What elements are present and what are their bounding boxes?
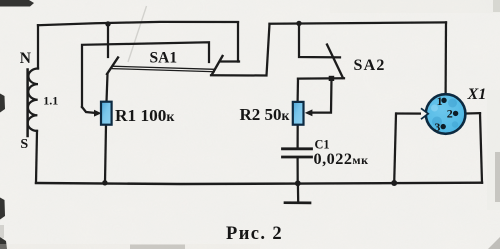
svg-text:N: N [20, 50, 31, 67]
svg-text:R1 100к: R1 100к [115, 106, 175, 125]
svg-text:1.1: 1.1 [43, 94, 58, 108]
svg-text:Рис. 2: Рис. 2 [226, 224, 283, 244]
svg-text:S: S [20, 137, 28, 152]
svg-text:1: 1 [437, 94, 443, 108]
svg-text:SA1: SA1 [150, 50, 178, 67]
svg-text:SA2: SA2 [354, 57, 386, 74]
svg-text:R2 50к: R2 50к [240, 105, 290, 124]
svg-text:3: 3 [434, 120, 440, 134]
svg-text:0,022мк: 0,022мк [314, 150, 369, 168]
svg-text:2: 2 [447, 107, 453, 121]
svg-text:X1: X1 [467, 85, 487, 103]
